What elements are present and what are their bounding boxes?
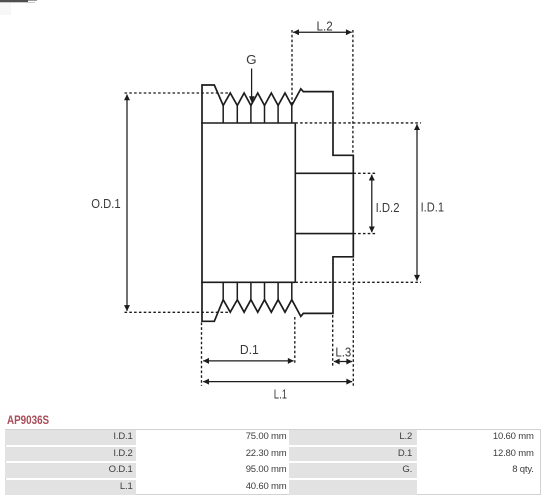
artifact dark line top-left [0, 0, 28, 2]
row 4: L.1 = 40.60 mm [5, 480, 132, 494]
row 1: I.D.1 = 75.00 mm, L.2 = 10.60 mm [5, 430, 132, 444]
extension line I.D.1 top [295, 122, 421, 124]
svg-text:I.D.2: I.D.2 [376, 200, 400, 215]
extension line I.D.2 bottom [353, 233, 376, 235]
pulley body right edge / hub face [294, 123, 296, 282]
top groove root lines [223, 106, 292, 124]
extension line O.D.1 bottom [125, 311, 231, 313]
extension line L.2 left [291, 30, 293, 106]
extension line D.1/L.1 left [201, 323, 203, 386]
table row 2 label cells [5, 447, 136, 461]
svg-text:O.D.1: O.D.1 [91, 196, 120, 211]
svg-text:L.3: L.3 [335, 345, 351, 360]
svg-text:G: G [246, 52, 257, 67]
dimension arrow O.D.1 [126, 95, 128, 311]
extension line L.3/L.1 right [352, 259, 354, 386]
spec table frame [5, 429, 541, 494]
extension line D.1 right [294, 317, 296, 365]
bottom groove root lines [223, 282, 292, 299]
dimension arrow D.1 [203, 360, 293, 362]
extension line I.D.1 bottom [295, 281, 421, 283]
svg-text:L.2: L.2 [317, 18, 333, 33]
svg-text:L.1: L.1 [274, 387, 287, 402]
dimension arrow I.D.1 [416, 124, 418, 280]
extension line I.D.2 top [353, 172, 376, 174]
pulley outline with poly-V grooves [202, 85, 353, 321]
extension line O.D.1 top [125, 92, 231, 94]
extension line L.2 right [352, 30, 354, 155]
bottom rim base line [201, 281, 295, 283]
row 3: O.D.1 = 95.00 mm, G. = 8 qty. [5, 463, 132, 477]
bore bottom line I.D.2 [295, 233, 353, 235]
dimension arrow L.2 [293, 31, 352, 33]
dimension arrow L.1 [203, 381, 352, 383]
bore top line I.D.2 [295, 172, 353, 174]
svg-text:D.1: D.1 [240, 342, 259, 357]
extension line L.3 left [332, 315, 334, 366]
table row 4 label cells [5, 480, 136, 494]
svg-text:I.D.1: I.D.1 [421, 200, 444, 215]
leader line G [251, 69, 253, 101]
table row 1 label cells [5, 430, 136, 444]
dimension arrow I.D.2 [371, 175, 373, 233]
dimension arrow L.3 [334, 361, 352, 363]
row 2: I.D.2 = 22.30 mm, D.1 = 12.80 mm [5, 447, 132, 461]
part number AP9036S [7, 413, 49, 427]
table row 3 label cells [5, 463, 136, 477]
top rim base line [201, 122, 295, 124]
leader arrowhead G [249, 96, 255, 103]
